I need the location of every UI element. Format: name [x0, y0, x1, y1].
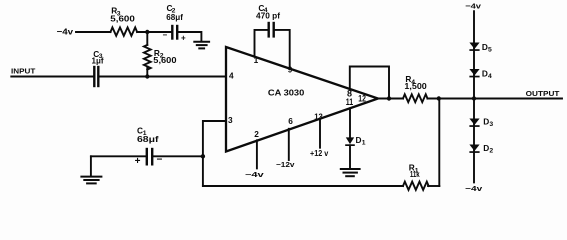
- svg-text:5: 5: [488, 46, 492, 53]
- svg-text:11k: 11k: [410, 169, 420, 179]
- svg-text:68μf: 68μf: [166, 12, 183, 22]
- svg-text:2: 2: [489, 147, 493, 154]
- svg-text:5,600: 5,600: [110, 14, 135, 24]
- svg-text:−4v: −4v: [57, 27, 74, 37]
- svg-text:−: −: [163, 31, 168, 40]
- svg-text:D: D: [356, 135, 362, 145]
- svg-text:68μf: 68μf: [137, 134, 159, 144]
- svg-text:470 pf: 470 pf: [256, 10, 280, 20]
- svg-text:3: 3: [228, 115, 233, 125]
- svg-text:1μf: 1μf: [92, 55, 104, 65]
- svg-text:−4v: −4v: [245, 172, 264, 179]
- svg-text:13: 13: [314, 112, 323, 122]
- svg-text:+12 v: +12 v: [310, 149, 329, 158]
- svg-text:1,500: 1,500: [404, 81, 427, 91]
- svg-text:CA 3030: CA 3030: [268, 88, 305, 98]
- svg-text:1: 1: [362, 139, 366, 146]
- svg-text:4: 4: [488, 73, 492, 80]
- svg-text:12: 12: [358, 93, 366, 103]
- svg-text:−12v: −12v: [276, 160, 295, 169]
- svg-text:−: −: [157, 155, 163, 166]
- svg-text:D: D: [482, 42, 488, 52]
- svg-text:INPUT: INPUT: [11, 67, 36, 76]
- svg-text:9: 9: [288, 65, 293, 75]
- svg-text:1: 1: [254, 55, 259, 65]
- svg-text:D: D: [482, 69, 488, 79]
- svg-text:−4v: −4v: [465, 184, 483, 193]
- svg-text:+: +: [181, 34, 186, 43]
- svg-text:2: 2: [254, 129, 259, 139]
- svg-text:3: 3: [489, 121, 493, 128]
- svg-text:8: 8: [347, 89, 352, 99]
- svg-text:−4v: −4v: [465, 2, 482, 11]
- svg-text:D: D: [483, 143, 489, 153]
- svg-text:+: +: [135, 156, 141, 167]
- svg-text:OUTPUT: OUTPUT: [526, 89, 560, 98]
- svg-text:6: 6: [288, 116, 293, 126]
- svg-text:11: 11: [346, 97, 353, 107]
- svg-text:D: D: [483, 117, 489, 127]
- svg-text:4: 4: [229, 71, 234, 81]
- svg-text:5,600: 5,600: [153, 55, 177, 65]
